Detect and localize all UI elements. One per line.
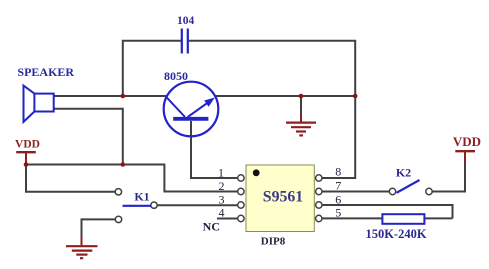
svg-text:S9561: S9561 [263,189,303,206]
svg-text:K2: K2 [396,166,411,180]
svg-text:VDD: VDD [15,139,40,151]
svg-text:8050: 8050 [164,69,188,83]
svg-text:DIP8: DIP8 [261,235,286,247]
svg-text:K1: K1 [134,190,149,204]
svg-text:4: 4 [219,206,225,220]
svg-text:2: 2 [219,179,225,193]
svg-text:5: 5 [335,205,341,219]
svg-text:VDD: VDD [453,134,481,149]
svg-text:6: 6 [335,192,341,206]
svg-text:104: 104 [177,15,195,27]
svg-text:SPEAKER: SPEAKER [17,65,74,79]
svg-text:1: 1 [218,165,224,179]
svg-text:NC: NC [203,219,220,233]
svg-text:3: 3 [219,192,225,206]
svg-text:8: 8 [335,164,341,178]
svg-text:150K-240K: 150K-240K [365,227,426,241]
svg-text:7: 7 [335,179,341,193]
